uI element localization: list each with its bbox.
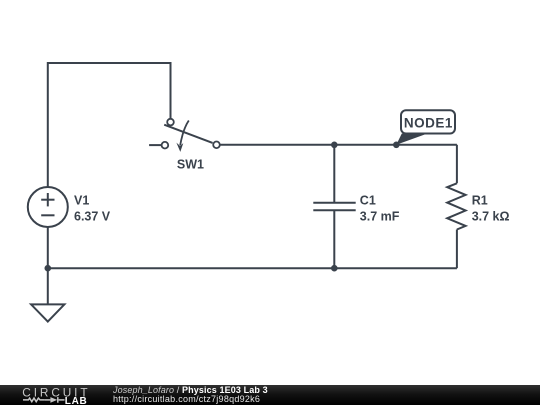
node NODE1 flag [396, 110, 455, 145]
capacitor C1 [313, 203, 355, 211]
wire R1 bottom lead [456, 230, 458, 269]
junction dot at ground branch [45, 265, 52, 272]
wire from V1 negative terminal down to ground junction [47, 227, 49, 304]
wire open stub at SW1 left throw [149, 144, 162, 146]
svg-text:V1: V1 [74, 193, 89, 207]
svg-text:C1: C1 [360, 193, 376, 207]
resistor R1 [447, 183, 465, 229]
junction dot at C1 top [331, 142, 338, 149]
wire bottom horizontal rail [48, 267, 457, 269]
CircuitLab logo [0, 385, 100, 405]
footer bar [0, 385, 540, 405]
wire from SW1 right terminal to R1 branch [220, 144, 457, 146]
svg-text:3.7 mF: 3.7 mF [360, 209, 400, 223]
svg-text:SW1: SW1 [177, 157, 204, 171]
svg-text:R1: R1 [472, 193, 488, 207]
wire C1 top lead [333, 145, 335, 203]
footer credit text [113, 386, 268, 405]
voltage source V1 [28, 187, 68, 227]
junction dot at C1 bottom [331, 265, 338, 272]
wire C1 bottom lead [333, 210, 335, 268]
svg-text:3.7 kΩ: 3.7 kΩ [472, 209, 510, 223]
wire R1 top lead [456, 145, 458, 184]
svg-text:6.37 V: 6.37 V [74, 209, 111, 223]
svg-text:LAB: LAB [65, 395, 88, 405]
switch SW1 [162, 119, 220, 152]
junction dot at NODE1 on top rail [393, 142, 400, 149]
svg-text:NODE1: NODE1 [404, 116, 453, 131]
ground [31, 304, 64, 321]
wire from V1 positive terminal up and across to SW1 top terminal [48, 63, 171, 187]
